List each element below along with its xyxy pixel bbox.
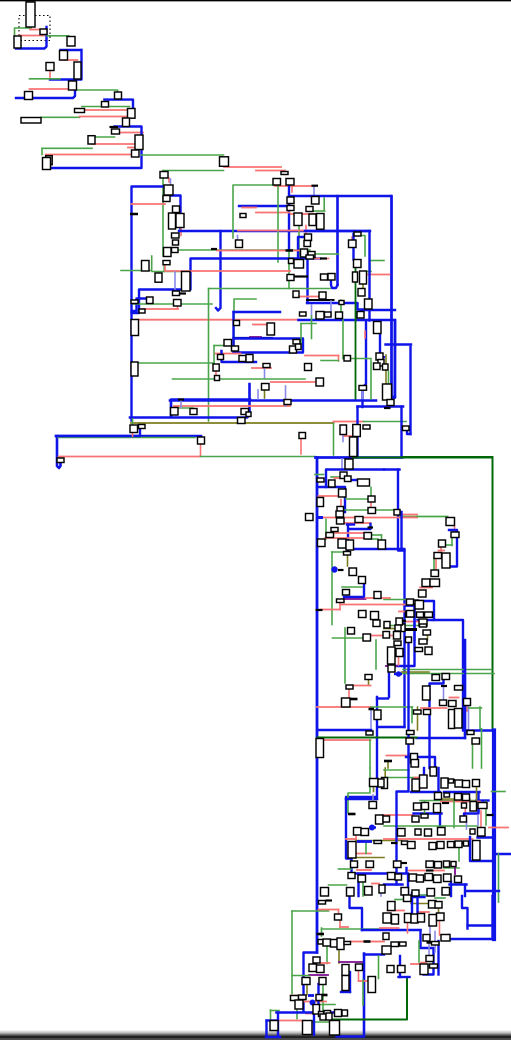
wire W21 [120, 132, 144, 134]
pin tick P3 [312, 185, 319, 187]
bus wire W103 [299, 320, 396, 397]
wire W296 [380, 893, 382, 896]
wire W203 [451, 538, 453, 546]
cell U307 [342, 1010, 348, 1016]
cell U53 [155, 273, 162, 282]
cell U285 [323, 939, 331, 946]
wire W131 [364, 331, 366, 338]
cell U46 [349, 240, 357, 248]
wire W263 [469, 707, 482, 709]
wire W9 [62, 59, 78, 61]
bus wire W163 [400, 407, 402, 457]
wire W24 [92, 143, 135, 145]
cell U217 [354, 828, 362, 836]
cell U61 [289, 259, 294, 264]
wire W411 [411, 963, 420, 965]
cell U310 [320, 1014, 326, 1020]
cell U90 [316, 378, 324, 386]
wire W313 [439, 814, 441, 828]
cell U58 [173, 291, 180, 296]
cell U86 [263, 364, 270, 368]
cell U224 [348, 873, 355, 879]
cell U188 [388, 665, 395, 672]
wire W366 [378, 956, 380, 979]
wire W328 [470, 837, 492, 861]
wire W92 [369, 261, 371, 272]
wire W158 [356, 407, 358, 457]
wire W96 [299, 296, 321, 298]
cell U14 [21, 118, 41, 124]
wire W83 [135, 319, 299, 321]
wire W41 [178, 249, 310, 251]
cell U149 [406, 612, 413, 618]
cell U51 [142, 261, 150, 272]
cell U286 [331, 940, 338, 948]
wire W294 [329, 884, 347, 886]
cell U163 [346, 540, 354, 550]
wire W231 [342, 586, 362, 588]
wire W300 [385, 777, 415, 779]
wire W178 [335, 477, 341, 479]
wire W156 [343, 435, 352, 437]
cell U256 [478, 828, 486, 837]
cell U96 [234, 321, 240, 326]
cell U161 [318, 539, 326, 547]
cell U19 [46, 156, 53, 165]
wire W222 [334, 532, 366, 534]
wire W45 [237, 236, 239, 241]
wire W85 [208, 289, 210, 422]
cell U248 [421, 814, 428, 818]
wire W251 [377, 697, 388, 699]
wire W390 [395, 899, 404, 901]
wire W385 [313, 1013, 315, 1036]
wire W359 [306, 985, 308, 995]
wire W166 [285, 386, 287, 406]
cell U18 [88, 136, 95, 144]
wire W244 [344, 628, 346, 683]
wire W4 [16, 27, 47, 49]
pin tick P35 [308, 994, 314, 997]
wire W189 [390, 196, 392, 400]
cell U283 [335, 914, 342, 920]
cell U178 [407, 599, 414, 605]
wire W356 [321, 962, 330, 964]
wire W213 [399, 621, 420, 623]
wire W400 [462, 896, 468, 929]
wire W65 [356, 236, 365, 257]
cell U159 [326, 533, 334, 538]
wire W139 [57, 436, 61, 468]
cell U126 [317, 478, 324, 482]
wire W325 [464, 811, 479, 815]
cell U325 [383, 933, 389, 940]
cell U171 [337, 599, 345, 603]
cell U279 [412, 890, 419, 896]
cell U29 [172, 233, 180, 238]
cell U56 [131, 300, 138, 304]
wire W303 [411, 791, 440, 793]
wire W88 [234, 311, 281, 313]
wire W19 [41, 116, 80, 118]
cell U129 [317, 498, 324, 507]
bus wire W253 [430, 676, 444, 768]
cell U36 [273, 179, 281, 186]
cell tall U296 [342, 976, 349, 991]
cell U304 [303, 1021, 313, 1035]
bus wire W217 [434, 620, 463, 730]
pin tick P11 [317, 516, 323, 519]
cell U186 [419, 639, 427, 644]
wire W42 [233, 185, 280, 238]
wire W302 [437, 768, 439, 792]
pin tick P2 [130, 213, 138, 216]
cell U70 [358, 289, 365, 297]
cell U323 [423, 935, 430, 942]
cell U267 [435, 862, 442, 869]
wire W70 [315, 253, 339, 255]
cell U52 [163, 261, 170, 265]
cell U306 [335, 1010, 342, 1017]
cell U295 [356, 964, 363, 971]
wire W175 [331, 476, 345, 478]
wire W46 [256, 170, 285, 172]
wire W305 [477, 793, 479, 812]
cell U330 [398, 966, 406, 973]
cell U105 [171, 408, 179, 416]
wire W242 [402, 671, 430, 673]
wire W102 [299, 319, 302, 321]
wire W32 [162, 171, 164, 257]
cell U116 [299, 433, 306, 439]
wire W386 [317, 984, 319, 1013]
wire W308 [476, 786, 478, 800]
cell U117 [383, 384, 392, 400]
wire W47 [275, 185, 314, 187]
wire W80 [143, 308, 178, 310]
cell U196 [455, 686, 463, 691]
cell U62 [294, 260, 304, 269]
selection box (dotted) [19, 16, 50, 41]
cell U99 [378, 360, 384, 367]
cell U5 [60, 51, 68, 61]
wire W355 [338, 950, 340, 964]
cell U308 [319, 1012, 324, 1017]
wire W346 [338, 910, 340, 918]
cell U277 [455, 876, 462, 883]
wire W115 [338, 356, 340, 362]
bus wire W105 [363, 321, 367, 408]
cell U276 [444, 874, 452, 882]
cell U162 [338, 539, 346, 548]
wire W360 [322, 985, 324, 1012]
cell U121 [284, 400, 291, 405]
wire W89 [314, 258, 329, 260]
cell U55 [147, 297, 154, 304]
pin tick P28 [426, 869, 434, 871]
wire W363 [341, 991, 350, 993]
wire W192 [344, 522, 371, 524]
cell U329 [387, 966, 394, 973]
cell U244 [462, 803, 467, 808]
wire W312 [414, 812, 442, 814]
cell U25 [163, 196, 170, 202]
wire W227 [331, 552, 333, 625]
cell U271 [395, 874, 402, 880]
pin tick P4 [211, 248, 217, 250]
bus wire W283 [346, 798, 377, 801]
wire W43 [239, 205, 290, 207]
wire W153 [132, 433, 134, 436]
wire W145 [170, 399, 376, 402]
bus wire W53 [336, 196, 339, 285]
cell U189 [365, 675, 372, 680]
cell U187 [425, 647, 432, 655]
pin tick P10 [384, 407, 391, 409]
cell U328 [382, 946, 391, 954]
wire W36 [166, 196, 181, 232]
wire W304 [444, 791, 480, 793]
wire W324 [464, 808, 466, 821]
cell U238 [444, 793, 450, 797]
pin tick P14 [405, 628, 417, 631]
wire W44 [242, 207, 256, 209]
wire W287 [356, 840, 402, 842]
cell U281 [442, 888, 450, 896]
cell U327 [400, 942, 407, 946]
wire W161 [390, 320, 395, 398]
cell U253 [425, 829, 432, 836]
wire W164 [257, 390, 259, 399]
cell U315 [435, 902, 442, 909]
wire W130 [362, 390, 364, 400]
bus wire W104 [368, 231, 370, 321]
cell U91 [224, 340, 232, 347]
wire W335 [464, 885, 466, 897]
cell U172 [359, 611, 367, 618]
cell U318 [405, 914, 412, 923]
pin tick P6 [179, 292, 186, 294]
bus wire W218 [397, 606, 415, 667]
wire W361 [339, 961, 364, 963]
wire W132 [296, 324, 301, 350]
cell U84 [296, 344, 302, 350]
cell U173 [371, 612, 379, 620]
cell U205 [366, 731, 373, 735]
wire W255 [450, 697, 459, 699]
cell U260 [437, 842, 444, 849]
cell U316 [383, 913, 391, 923]
cell U291 [317, 965, 325, 973]
wire W6 [47, 36, 69, 44]
wire W373 [304, 1001, 326, 1003]
cell U245 [470, 802, 477, 812]
wire W31 [163, 170, 224, 172]
cell U49 [301, 249, 308, 257]
pin tick P18 [350, 698, 358, 701]
wire W243 [375, 640, 377, 669]
cell U103 [57, 458, 64, 463]
wire W236 [366, 635, 396, 637]
wire W162 [358, 405, 404, 408]
cell U114 [363, 425, 370, 429]
bus wire W168 [316, 456, 403, 459]
wire W229 [344, 598, 366, 600]
cell U314 [429, 901, 437, 909]
cell U34 [236, 240, 243, 248]
wire W330 [359, 868, 407, 874]
cell U64 [354, 260, 362, 268]
net wire W169 [353, 458, 493, 731]
wire W238 [413, 606, 415, 641]
wire W196 [347, 525, 349, 553]
cell U265 [394, 861, 402, 868]
wire W108 [234, 337, 273, 339]
cell U41 [306, 207, 313, 212]
wire W84 [209, 288, 331, 290]
wire W270 [318, 739, 371, 741]
cell U228 [379, 885, 385, 893]
cell U47 [305, 234, 312, 241]
cell U73 [319, 292, 326, 299]
wire W68 [306, 259, 308, 304]
cell U69 [353, 272, 358, 282]
wire W26 [41, 148, 43, 154]
wire W114 [305, 355, 339, 357]
wire W23 [95, 136, 115, 138]
cell U157 [398, 624, 406, 632]
wire W210 [384, 599, 412, 601]
cell U135 [336, 511, 344, 517]
wire W235 [407, 604, 415, 606]
wire W345 [319, 909, 339, 911]
bus wire W278 [492, 731, 496, 940]
cell U8 [69, 81, 77, 90]
cell U174 [373, 620, 380, 627]
wire W11 [30, 78, 61, 80]
cell U331 [426, 956, 434, 962]
cell U263 [464, 841, 469, 846]
wire W391 [411, 903, 429, 905]
cell U77 [325, 312, 332, 317]
cell U50 [308, 252, 315, 258]
cell U268 [444, 861, 450, 867]
wire W15 [104, 99, 131, 101]
bus wire W250 [346, 697, 377, 896]
cell U107 [241, 409, 249, 415]
wire W28 [128, 147, 135, 149]
cell U230 [420, 775, 428, 788]
cell U7 [46, 63, 54, 71]
cell U92 [232, 346, 239, 351]
wire W179 [317, 487, 345, 512]
cell U138 [446, 518, 455, 526]
cell U166 [344, 552, 351, 556]
cell U213 [370, 779, 379, 787]
wire W95 [361, 309, 395, 311]
cell U201 [424, 710, 431, 715]
cell U167 [349, 568, 357, 576]
cell U251 [398, 829, 406, 837]
cell U246 [478, 803, 487, 809]
wire W126 [220, 351, 222, 355]
wire W173 [384, 468, 400, 470]
cell U3 [14, 36, 21, 48]
wire W334 [450, 883, 467, 885]
wire W398 [416, 896, 418, 914]
cell U175 [348, 628, 355, 635]
wire W362 [349, 972, 351, 992]
cell U240 [463, 794, 470, 801]
cell U312 [388, 902, 396, 911]
cell U40 [287, 206, 294, 211]
cell U123 [340, 472, 347, 479]
wire W271 [369, 740, 371, 768]
wire W248 [317, 706, 371, 708]
pin tick P27 [400, 862, 408, 864]
cell U31 [164, 248, 172, 257]
wire W205 [440, 547, 442, 551]
cell U98 [376, 353, 383, 360]
wire W239 [398, 656, 400, 666]
wire W124 [213, 346, 215, 364]
cell U303 [270, 1021, 278, 1031]
wire W101 [340, 300, 342, 316]
wire W277 [384, 768, 386, 778]
wire W275 [406, 757, 435, 768]
wire W190 [390, 396, 395, 398]
cell U130 [368, 496, 375, 502]
wire W100 [330, 301, 332, 316]
cell U309 [324, 1011, 331, 1019]
cell U143 [431, 570, 439, 577]
cell U207 [406, 738, 414, 744]
wire W281 [373, 787, 375, 792]
wire W273 [481, 729, 483, 768]
wire W143 [201, 456, 316, 458]
wire W116 [321, 360, 339, 362]
cell U23 [160, 172, 168, 179]
wire W258 [411, 707, 413, 723]
wire W237 [333, 637, 366, 639]
cell U284 [318, 940, 323, 945]
wire W241 [402, 673, 495, 675]
cell U270 [388, 873, 396, 880]
pin tick P9 [178, 398, 184, 400]
cell U102 [403, 426, 410, 431]
wire W91 [364, 271, 372, 273]
cell U252 [415, 829, 421, 835]
cell U104 [198, 437, 205, 444]
wire W110 [234, 339, 304, 353]
wire W118 [264, 367, 266, 379]
wire W246 [353, 685, 371, 687]
wire W384 [266, 1036, 280, 1038]
wire W318 [409, 870, 444, 872]
bottom bar [0, 1030, 511, 1037]
wire W72 [151, 256, 153, 271]
cell U226 [347, 888, 355, 897]
wire W254 [443, 688, 445, 703]
cell U122 [345, 459, 353, 469]
wire W206 [439, 550, 445, 552]
cell U292 [302, 978, 310, 985]
cell U65 [328, 274, 335, 281]
pin tick P32 [326, 899, 333, 901]
cell U124 [345, 476, 352, 482]
cell U272 [409, 874, 417, 881]
cell tall U297 [368, 977, 376, 993]
